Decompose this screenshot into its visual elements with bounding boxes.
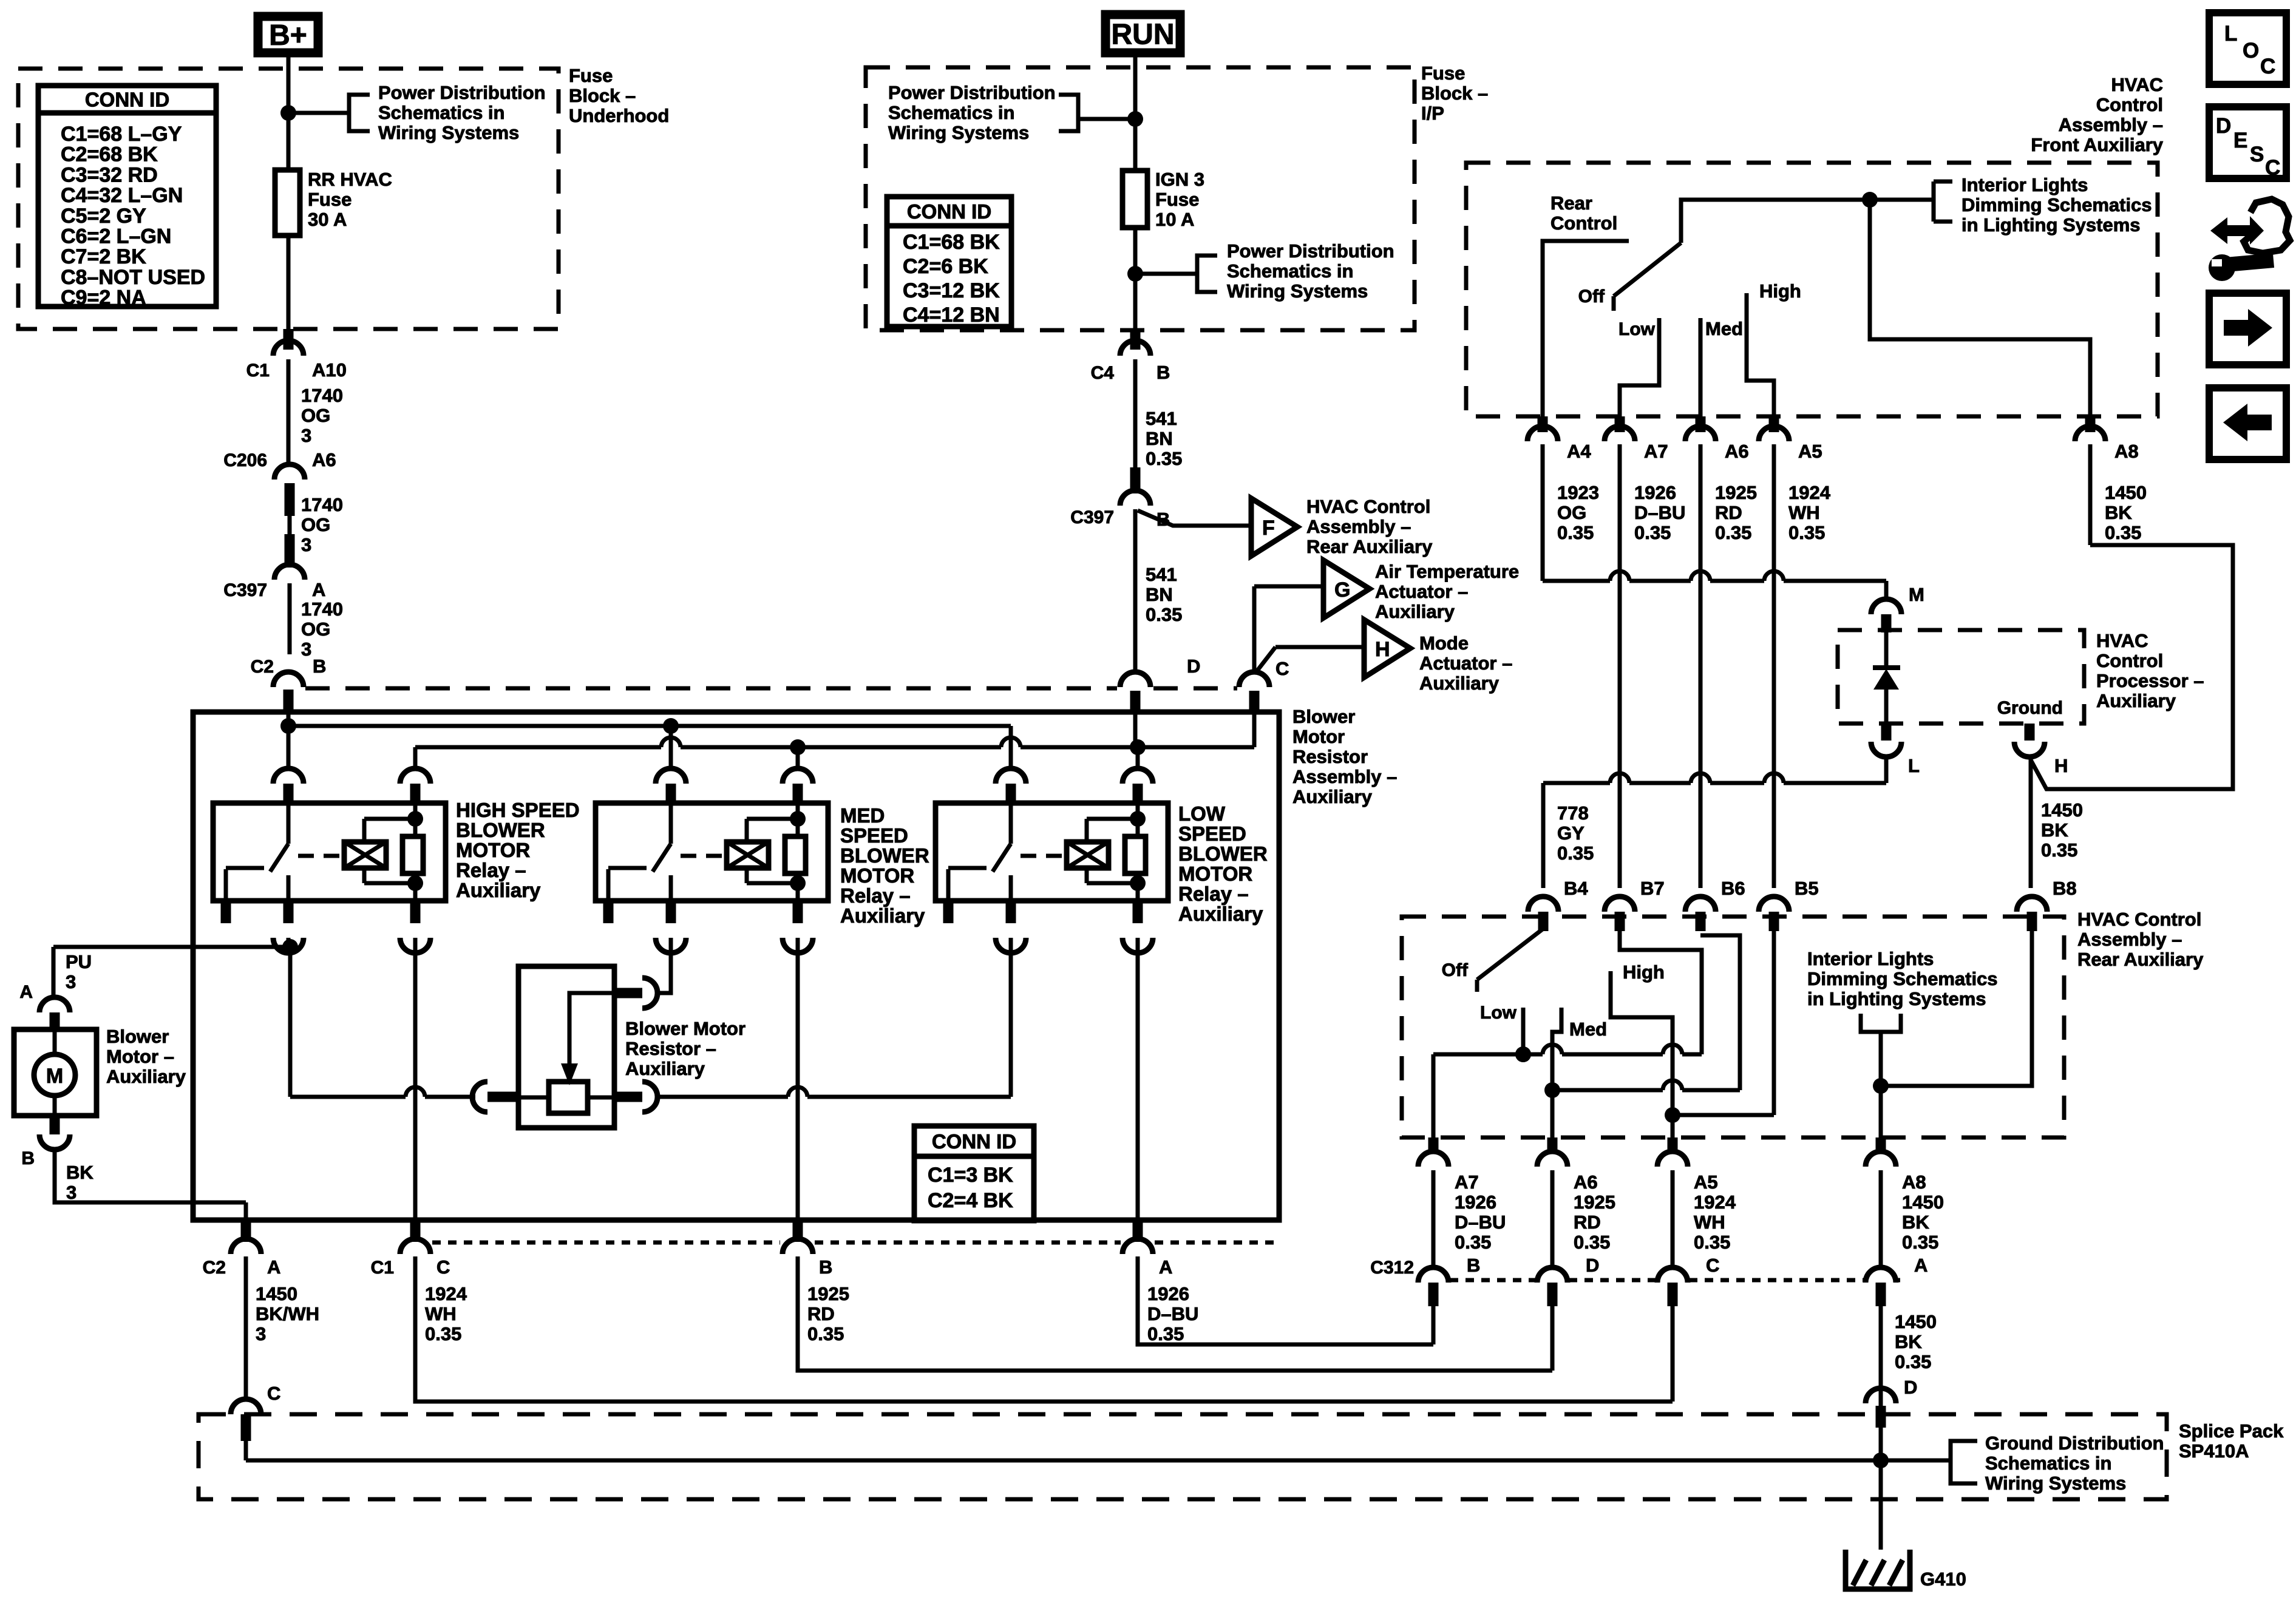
svg-text:C1: C1 — [246, 361, 270, 381]
svg-text:C: C — [1275, 658, 1289, 679]
svg-text:Schematics in: Schematics in — [888, 102, 1014, 123]
svg-text:Power Distribution: Power Distribution — [1227, 240, 1394, 262]
svg-text:RD: RD — [1715, 502, 1742, 523]
svg-text:C: C — [267, 1383, 280, 1404]
svg-text:MOTOR: MOTOR — [840, 864, 914, 887]
svg-text:3: 3 — [301, 534, 311, 555]
svg-text:Relay –: Relay – — [840, 884, 911, 907]
svg-text:HVAC: HVAC — [2111, 74, 2163, 95]
svg-text:Wiring Systems: Wiring Systems — [1985, 1473, 2126, 1494]
svg-text:BN: BN — [1146, 428, 1173, 449]
svg-text:C1: C1 — [371, 1258, 394, 1278]
svg-text:Control: Control — [2096, 94, 2163, 115]
svg-text:C206: C206 — [223, 450, 267, 470]
svg-text:RD: RD — [1574, 1212, 1601, 1233]
svg-text:1923: 1923 — [1557, 482, 1599, 503]
svg-text:BLOWER: BLOWER — [1178, 842, 1268, 865]
svg-text:Motor –: Motor – — [106, 1046, 174, 1067]
svg-text:BN: BN — [1146, 584, 1173, 605]
svg-text:0.35: 0.35 — [2105, 522, 2141, 543]
svg-text:0.35: 0.35 — [1715, 522, 1751, 543]
svg-text:1450: 1450 — [1895, 1311, 1937, 1332]
svg-text:Assembly –: Assembly – — [1306, 516, 1411, 537]
svg-text:0.35: 0.35 — [1147, 1323, 1184, 1344]
svg-text:1450: 1450 — [2105, 482, 2147, 503]
svg-text:10 A: 10 A — [1155, 209, 1194, 230]
svg-text:0.35: 0.35 — [425, 1323, 461, 1344]
svg-text:C4: C4 — [1091, 363, 1115, 383]
svg-text:Resistor –: Resistor – — [625, 1038, 716, 1059]
svg-text:A8: A8 — [1902, 1171, 1926, 1193]
svg-text:C397: C397 — [223, 580, 267, 600]
svg-text:CONN ID: CONN ID — [907, 200, 991, 223]
svg-text:SPEED: SPEED — [1178, 822, 1246, 845]
svg-text:BK: BK — [2041, 819, 2068, 841]
svg-text:A8: A8 — [2114, 441, 2139, 462]
svg-text:A10: A10 — [312, 359, 347, 381]
svg-text:A5: A5 — [1694, 1171, 1718, 1193]
svg-text:HVAC: HVAC — [2096, 630, 2148, 651]
svg-text:1924: 1924 — [1694, 1192, 1736, 1213]
svg-text:C: C — [2260, 55, 2275, 78]
svg-text:A4: A4 — [1567, 441, 1591, 462]
svg-text:Block –: Block – — [569, 85, 636, 106]
svg-text:Auxiliary: Auxiliary — [1292, 786, 1373, 807]
svg-text:F: F — [1262, 517, 1275, 540]
svg-text:OG: OG — [301, 514, 330, 535]
svg-text:RR HVAC: RR HVAC — [308, 169, 392, 190]
svg-text:D–BU: D–BU — [1455, 1212, 1506, 1233]
svg-text:C1=3 BK: C1=3 BK — [928, 1164, 1013, 1187]
svg-text:0.35: 0.35 — [1146, 604, 1182, 625]
svg-text:Fuse: Fuse — [1421, 63, 1465, 84]
svg-text:Resistor: Resistor — [1292, 746, 1368, 767]
svg-text:BK: BK — [2105, 502, 2132, 523]
svg-text:Med: Med — [1705, 318, 1743, 339]
svg-text:Wiring Systems: Wiring Systems — [1227, 280, 1368, 302]
svg-text:Ground Distribution: Ground Distribution — [1985, 1432, 2164, 1454]
svg-text:B: B — [819, 1256, 832, 1278]
svg-text:Assembly –: Assembly – — [2077, 929, 2182, 950]
svg-text:Fuse: Fuse — [1155, 189, 1199, 210]
svg-text:Med: Med — [1569, 1019, 1607, 1040]
svg-text:C2=68 BK: C2=68 BK — [61, 143, 158, 166]
svg-text:Relay –: Relay – — [456, 859, 526, 881]
svg-text:D: D — [1586, 1255, 1599, 1276]
svg-text:PU: PU — [66, 951, 92, 972]
svg-text:0.35: 0.35 — [1788, 522, 1825, 543]
svg-text:Control: Control — [1550, 212, 1617, 234]
svg-text:C: C — [1706, 1255, 1719, 1276]
svg-text:B7: B7 — [1640, 878, 1665, 899]
svg-text:WH: WH — [1694, 1212, 1725, 1233]
svg-text:0.35: 0.35 — [1146, 448, 1182, 469]
svg-text:Splice Pack: Splice Pack — [2179, 1420, 2284, 1442]
svg-text:Low: Low — [1618, 319, 1656, 339]
svg-text:A6: A6 — [1725, 441, 1749, 462]
svg-text:Blower Motor: Blower Motor — [625, 1018, 746, 1039]
svg-text:Dimming Schematics: Dimming Schematics — [1961, 194, 2152, 215]
svg-text:D–BU: D–BU — [1634, 502, 1685, 523]
svg-text:1740: 1740 — [301, 385, 343, 406]
svg-text:A7: A7 — [1644, 441, 1668, 462]
svg-text:Auxiliary: Auxiliary — [2096, 690, 2176, 711]
svg-text:A6: A6 — [312, 449, 336, 470]
svg-text:GY: GY — [1557, 822, 1584, 844]
svg-text:Ground: Ground — [1997, 698, 2063, 718]
svg-text:1740: 1740 — [301, 494, 343, 515]
svg-text:0.35: 0.35 — [1574, 1232, 1610, 1253]
svg-text:3: 3 — [301, 639, 311, 660]
svg-text:Block –: Block – — [1421, 83, 1488, 104]
svg-text:BK: BK — [1895, 1331, 1922, 1352]
svg-text:in Lighting Systems: in Lighting Systems — [1807, 988, 1986, 1009]
svg-text:0.35: 0.35 — [1557, 522, 1594, 543]
svg-text:MOTOR: MOTOR — [456, 839, 530, 861]
svg-text:L: L — [1908, 755, 1920, 776]
svg-text:C: C — [436, 1256, 450, 1278]
svg-text:Schematics in: Schematics in — [1227, 260, 1353, 282]
svg-text:SP410A: SP410A — [2179, 1440, 2249, 1462]
svg-text:A: A — [1159, 1256, 1172, 1278]
svg-text:BLOWER: BLOWER — [456, 819, 545, 841]
svg-text:778: 778 — [1557, 802, 1589, 824]
svg-text:A7: A7 — [1455, 1171, 1479, 1193]
svg-text:A: A — [267, 1256, 280, 1278]
svg-text:0.35: 0.35 — [1557, 842, 1594, 864]
svg-text:B: B — [21, 1148, 35, 1168]
svg-text:IGN 3: IGN 3 — [1155, 169, 1204, 190]
svg-text:Low: Low — [1480, 1003, 1517, 1023]
svg-text:Air Temperature: Air Temperature — [1375, 561, 1519, 582]
svg-text:CONN ID: CONN ID — [932, 1130, 1016, 1153]
svg-text:3: 3 — [301, 425, 311, 446]
svg-text:I/P: I/P — [1421, 103, 1444, 124]
svg-text:S: S — [2250, 143, 2264, 166]
svg-text:1450: 1450 — [256, 1283, 297, 1304]
svg-text:SPEED: SPEED — [840, 824, 908, 847]
svg-text:1740: 1740 — [301, 598, 343, 620]
svg-text:C4=32 L–GN: C4=32 L–GN — [61, 184, 183, 207]
svg-text:Auxiliary: Auxiliary — [1375, 601, 1455, 622]
svg-text:H: H — [2054, 755, 2068, 776]
svg-text:CONN ID: CONN ID — [85, 89, 169, 111]
svg-text:1924: 1924 — [425, 1283, 467, 1304]
svg-text:D: D — [1904, 1377, 1917, 1398]
svg-text:Dimming Schematics: Dimming Schematics — [1807, 968, 1998, 989]
svg-text:Rear Auxiliary: Rear Auxiliary — [1306, 536, 1433, 557]
svg-text:1925: 1925 — [1574, 1192, 1615, 1213]
svg-text:3: 3 — [66, 1182, 76, 1203]
svg-text:B: B — [1467, 1255, 1480, 1276]
svg-text:C9=2 NA: C9=2 NA — [61, 286, 146, 310]
svg-text:Fuse: Fuse — [308, 189, 352, 210]
svg-text:Rear: Rear — [1550, 192, 1592, 214]
svg-text:C6=2 L–GN: C6=2 L–GN — [61, 225, 171, 248]
svg-text:Power Distribution: Power Distribution — [378, 82, 546, 103]
svg-text:BLOWER: BLOWER — [840, 844, 929, 867]
svg-text:Wiring Systems: Wiring Systems — [378, 122, 519, 143]
svg-text:Schematics in: Schematics in — [378, 102, 504, 123]
svg-text:0.35: 0.35 — [1634, 522, 1671, 543]
svg-text:Rear Auxiliary: Rear Auxiliary — [2077, 949, 2204, 970]
svg-text:RUN: RUN — [1112, 19, 1175, 51]
svg-text:High: High — [1623, 961, 1665, 983]
svg-text:Mode: Mode — [1419, 632, 1469, 654]
svg-text:D–BU: D–BU — [1147, 1303, 1198, 1324]
svg-text:0.35: 0.35 — [2041, 839, 2077, 861]
svg-text:B: B — [313, 656, 326, 677]
svg-text:HVAC Control: HVAC Control — [1306, 496, 1430, 517]
svg-text:G: G — [1334, 578, 1350, 602]
svg-text:B6: B6 — [1721, 878, 1745, 899]
svg-text:Off: Off — [1578, 286, 1605, 307]
svg-text:C2=4 BK: C2=4 BK — [928, 1189, 1013, 1212]
svg-text:541: 541 — [1146, 564, 1177, 585]
svg-text:C312: C312 — [1370, 1258, 1414, 1278]
svg-text:1450: 1450 — [2041, 799, 2083, 821]
svg-text:C2: C2 — [251, 657, 274, 677]
svg-text:BK: BK — [1902, 1212, 1929, 1233]
svg-text:Blower: Blower — [106, 1026, 169, 1047]
svg-text:D: D — [2216, 114, 2231, 138]
svg-text:Auxiliary: Auxiliary — [625, 1058, 705, 1079]
svg-text:0.35: 0.35 — [1895, 1351, 1931, 1372]
svg-text:BK/WH: BK/WH — [256, 1303, 319, 1324]
svg-text:A5: A5 — [1798, 441, 1822, 462]
svg-text:0.35: 0.35 — [1902, 1232, 1938, 1253]
svg-text:B4: B4 — [1564, 878, 1588, 899]
svg-text:RD: RD — [807, 1303, 835, 1324]
svg-text:A: A — [19, 982, 33, 1002]
svg-text:M: M — [46, 1065, 63, 1088]
svg-text:Underhood: Underhood — [569, 105, 669, 126]
svg-text:A6: A6 — [1574, 1171, 1598, 1193]
svg-text:Auxiliary: Auxiliary — [840, 904, 925, 927]
svg-text:0.35: 0.35 — [1455, 1232, 1491, 1253]
svg-text:B8: B8 — [2053, 878, 2077, 899]
svg-text:MOTOR: MOTOR — [1178, 863, 1252, 885]
svg-text:Assembly –: Assembly – — [2059, 114, 2163, 135]
svg-text:541: 541 — [1146, 408, 1177, 429]
svg-text:Control: Control — [2096, 650, 2163, 671]
svg-text:C: C — [2265, 156, 2280, 180]
svg-text:C2=6 BK: C2=6 BK — [903, 255, 988, 278]
svg-text:Auxiliary: Auxiliary — [1419, 673, 1500, 694]
svg-text:1924: 1924 — [1788, 482, 1831, 503]
svg-text:C7=2 BK: C7=2 BK — [61, 245, 146, 268]
svg-text:Power Distribution: Power Distribution — [888, 82, 1056, 103]
svg-text:3: 3 — [256, 1323, 266, 1344]
svg-text:MED: MED — [840, 804, 885, 827]
svg-text:C5=2 GY: C5=2 GY — [61, 205, 146, 228]
svg-text:Relay –: Relay – — [1178, 883, 1249, 905]
svg-text:Assembly –: Assembly – — [1292, 766, 1397, 787]
svg-text:B+: B+ — [269, 19, 307, 52]
svg-text:LOW: LOW — [1178, 802, 1226, 825]
svg-text:1925: 1925 — [807, 1283, 849, 1304]
svg-text:C1=68 L–GY: C1=68 L–GY — [61, 123, 182, 146]
svg-text:E: E — [2233, 129, 2247, 152]
svg-text:A: A — [1914, 1255, 1927, 1276]
svg-text:Actuator –: Actuator – — [1419, 653, 1512, 674]
svg-text:C1=68 BK: C1=68 BK — [903, 231, 1000, 254]
svg-text:Auxiliary: Auxiliary — [1178, 903, 1263, 925]
svg-text:B5: B5 — [1795, 878, 1819, 899]
svg-text:Interior Lights: Interior Lights — [1961, 174, 2088, 195]
svg-text:1926: 1926 — [1147, 1283, 1189, 1304]
svg-text:H: H — [1375, 638, 1390, 661]
svg-text:in Lighting Systems: in Lighting Systems — [1961, 214, 2141, 236]
svg-text:Auxiliary: Auxiliary — [456, 879, 541, 901]
svg-text:A: A — [312, 579, 325, 600]
svg-text:OG: OG — [301, 619, 330, 640]
svg-text:C8–NOT USED: C8–NOT USED — [61, 266, 205, 289]
svg-text:B: B — [1156, 362, 1170, 383]
svg-text:1926: 1926 — [1634, 482, 1676, 503]
svg-text:Processor –: Processor – — [2096, 670, 2204, 691]
svg-text:C2: C2 — [203, 1258, 226, 1278]
svg-text:HIGH SPEED: HIGH SPEED — [456, 799, 580, 821]
svg-text:0.35: 0.35 — [807, 1323, 844, 1344]
svg-text:Schematics in: Schematics in — [1985, 1453, 2111, 1474]
svg-text:C4=12 BN: C4=12 BN — [903, 303, 1000, 327]
svg-text:Fuse: Fuse — [569, 65, 613, 86]
svg-text:Interior Lights: Interior Lights — [1807, 948, 1934, 969]
svg-text:HVAC Control: HVAC Control — [2077, 909, 2201, 930]
svg-text:Off: Off — [1442, 960, 1469, 980]
svg-text:O: O — [2243, 39, 2259, 63]
svg-text:M: M — [1909, 584, 1924, 605]
svg-text:1925: 1925 — [1715, 482, 1757, 503]
svg-text:Motor: Motor — [1292, 726, 1345, 747]
svg-text:Front Auxiliary: Front Auxiliary — [2031, 134, 2163, 155]
svg-text:3: 3 — [66, 971, 76, 992]
svg-text:0.35: 0.35 — [1694, 1232, 1730, 1253]
svg-text:C3=32 RD: C3=32 RD — [61, 163, 158, 186]
svg-text:D: D — [1187, 656, 1200, 677]
svg-text:C3=12 BK: C3=12 BK — [903, 279, 1000, 302]
svg-text:Wiring Systems: Wiring Systems — [888, 122, 1029, 143]
svg-text:C397: C397 — [1070, 507, 1114, 527]
svg-text:OG: OG — [301, 405, 330, 426]
svg-text:Blower: Blower — [1292, 706, 1355, 727]
svg-text:BK: BK — [66, 1162, 93, 1183]
svg-text:G410: G410 — [1920, 1568, 1966, 1590]
svg-text:1926: 1926 — [1455, 1192, 1496, 1213]
svg-text:30 A: 30 A — [308, 209, 347, 230]
svg-text:L: L — [2224, 22, 2237, 46]
svg-text:High: High — [1759, 280, 1801, 302]
svg-text:WH: WH — [425, 1303, 457, 1324]
svg-text:OG: OG — [1557, 502, 1586, 523]
svg-text:WH: WH — [1788, 502, 1820, 523]
svg-text:Auxiliary: Auxiliary — [106, 1066, 186, 1087]
svg-text:Actuator –: Actuator – — [1375, 581, 1468, 602]
svg-text:1450: 1450 — [1902, 1192, 1944, 1213]
